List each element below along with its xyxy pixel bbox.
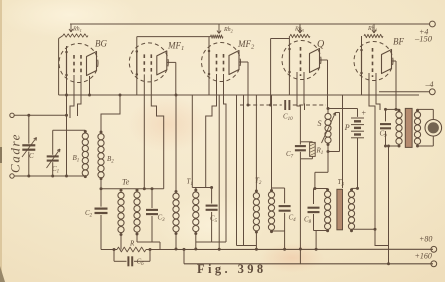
svg-text:C: C — [29, 152, 34, 160]
svg-text:Rh1: Rh1 — [72, 27, 82, 34]
svg-text:Cadre: Cadre — [8, 133, 23, 173]
svg-text:Rh4: Rh4 — [367, 26, 378, 33]
svg-text:R: R — [129, 240, 135, 248]
svg-text:–150: –150 — [414, 34, 433, 44]
svg-text:+160: +160 — [415, 252, 432, 261]
svg-text:–4: –4 — [425, 80, 434, 89]
svg-text:Fig. 398: Fig. 398 — [197, 262, 267, 276]
svg-text:Rh2: Rh2 — [223, 27, 234, 34]
svg-text:+: + — [361, 109, 366, 118]
svg-text:BG: BG — [95, 39, 107, 49]
svg-text:Rh3: Rh3 — [294, 27, 304, 34]
svg-text:+80: +80 — [419, 235, 432, 244]
svg-text:S: S — [318, 119, 322, 128]
svg-text:Te: Te — [122, 178, 130, 187]
svg-text:BF: BF — [393, 37, 404, 47]
svg-text:Q: Q — [317, 39, 325, 50]
svg-text:P: P — [344, 123, 350, 132]
